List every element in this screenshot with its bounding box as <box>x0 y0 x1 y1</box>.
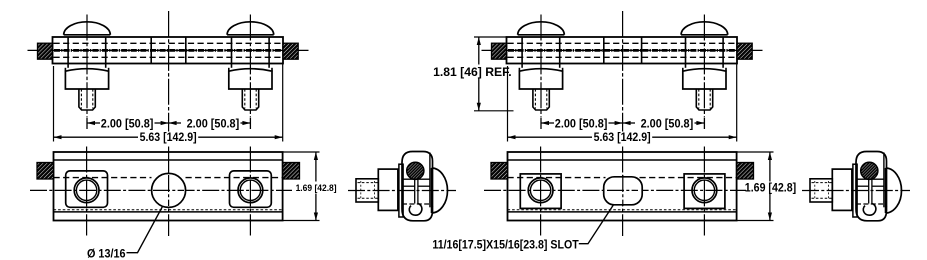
front view: bolt B1 washer plate (rounded) <box>66 171 108 207</box>
svg-text:1.81 [46] REF.: 1.81 [46] REF. <box>433 65 512 79</box>
front view: bolt B1 washer plate (square) <box>520 174 561 209</box>
svg-text:1.69 [42.8]: 1.69 [42.8] <box>745 180 796 194</box>
front view: bolt B2 washer plate (rounded) <box>230 171 272 207</box>
front view: bolt B2 washer plate (square) <box>684 174 725 209</box>
dimension 1.81 [46] REF. dim line + arrows <box>478 37 480 65</box>
dimension 1.81 [46] REF. extension lines <box>474 36 507 38</box>
front view: centre hole (round) <box>152 173 186 207</box>
left assembly (round hole variant) <box>28 11 457 236</box>
svg-text:Ø 13/16: Ø 13/16 <box>87 247 126 260</box>
leader for slot label <box>579 205 614 244</box>
svg-text:11/16[17.5]X15/16[23.8] SLOT: 11/16[17.5]X15/16[23.8] SLOT <box>432 237 579 251</box>
top view: centre slot edge lines <box>603 37 605 64</box>
front view: centre slot (obround) <box>604 177 643 205</box>
top view: centre hole edge lines <box>150 37 152 64</box>
leader for hole label <box>127 207 163 253</box>
right assembly (slot variant) <box>482 11 911 236</box>
svg-text:1.69 [42.8]: 1.69 [42.8] <box>296 183 337 194</box>
